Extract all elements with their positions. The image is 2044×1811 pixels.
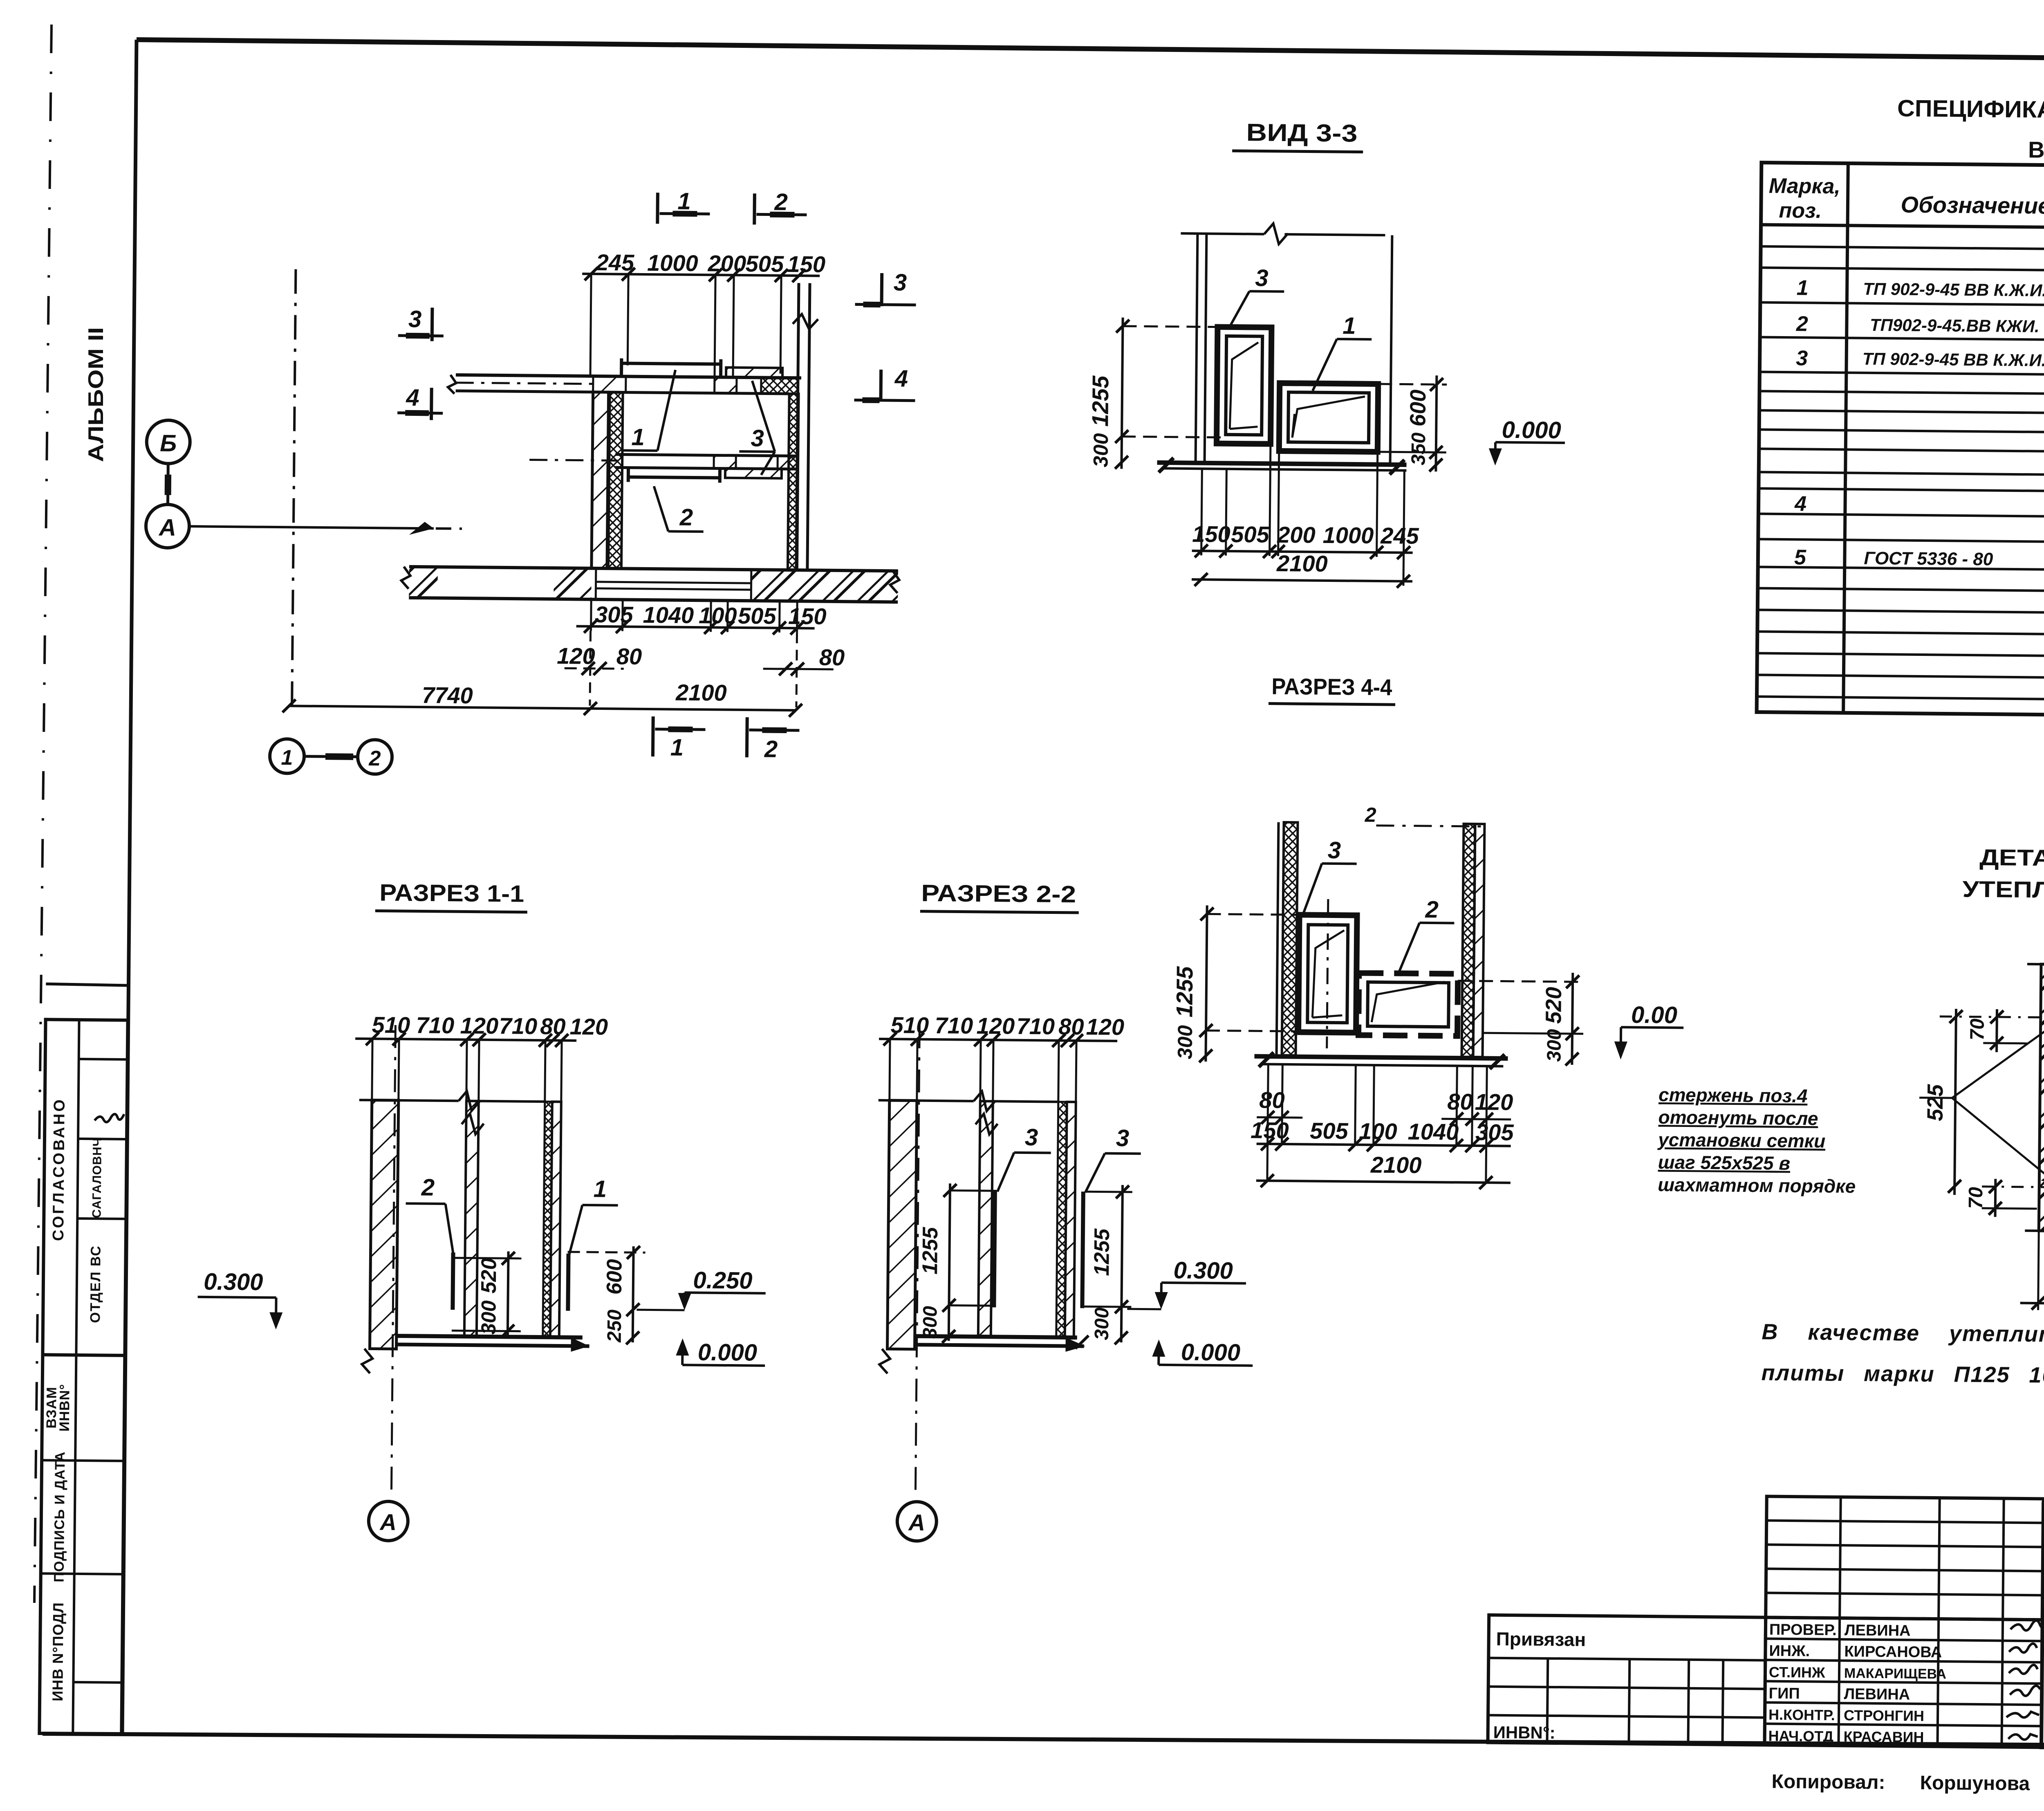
svg-text:ТП 902-9-45 ВВ К.Ж.И. РМ1: ТП 902-9-45 ВВ К.Ж.И. РМ1	[1863, 279, 2044, 301]
svg-text:1: 1	[677, 188, 691, 215]
wall break bottom	[2025, 1231, 2044, 1232]
svg-text:505: 505	[1310, 1118, 1349, 1144]
dim 600 250	[568, 1252, 645, 1253]
frame 2 edge bar	[453, 1252, 453, 1310]
svg-text:ГОСТ 5336 - 80: ГОСТ 5336 - 80	[1864, 548, 1993, 570]
svg-text:3: 3	[1796, 346, 1808, 370]
svg-text:шаг 525х525 в: шаг 525х525 в	[1658, 1151, 1790, 1174]
svg-text:1: 1	[1796, 276, 1808, 300]
svg-text:ВЕНТКАМЕРЫ: ВЕНТКАМЕРЫ	[2028, 137, 2044, 164]
svg-text:СТ.ИНЖ: СТ.ИНЖ	[1769, 1664, 1825, 1681]
svg-text:2: 2	[1365, 803, 1376, 826]
svg-text:ИНВ N°ПОДЛ: ИНВ N°ПОДЛ	[49, 1602, 67, 1701]
right dims 600 350	[1436, 375, 1437, 471]
axis 1 vertical line	[292, 269, 296, 706]
svg-text:ПОДПИСЬ И ДАТА: ПОДПИСЬ И ДАТА	[52, 1451, 68, 1582]
svg-text:ДЕТАЛЬ КРЕПЛЕНИЯ: ДЕТАЛЬ КРЕПЛЕНИЯ	[1979, 844, 2044, 873]
dim 70 bottom	[1994, 1179, 1997, 1217]
right wall pair	[543, 1102, 552, 1337]
svg-text:ОТДЕЛ ВС: ОТДЕЛ ВС	[87, 1245, 104, 1323]
middle wall	[464, 1101, 479, 1336]
svg-text:710: 710	[935, 1012, 973, 1039]
frame 3 edge bar right	[1082, 1192, 1083, 1308]
svg-text:80: 80	[1447, 1088, 1473, 1115]
svg-text:РАЗРЕЗ 2-2: РАЗРЕЗ 2-2	[921, 880, 1076, 908]
svg-text:0.000: 0.000	[698, 1339, 758, 1366]
axis circle 2	[358, 740, 392, 774]
cut mark 1 top	[656, 193, 659, 224]
svg-text:245: 245	[595, 249, 634, 276]
svg-text:505: 505	[1231, 521, 1270, 548]
svg-text:ИНВN°:: ИНВN°:	[1493, 1723, 1555, 1742]
svg-text:200: 200	[1277, 522, 1316, 548]
svg-text:2: 2	[421, 1174, 435, 1201]
svg-text:80: 80	[616, 643, 642, 669]
left wall of chamber	[592, 392, 609, 568]
svg-text:80: 80	[819, 644, 845, 671]
brick wall	[2039, 964, 2044, 1231]
svg-text:А: А	[379, 1509, 397, 1535]
column lines	[1843, 163, 1848, 713]
svg-text:КИРСАНОВА: КИРСАНОВА	[1844, 1643, 1942, 1661]
svg-text:245: 245	[1380, 523, 1419, 549]
top wall band	[456, 375, 801, 378]
svg-text:120: 120	[460, 1012, 498, 1039]
svg-text:1: 1	[594, 1176, 607, 1202]
svg-text:0.300: 0.300	[1173, 1257, 1233, 1284]
svg-text:СПЕЦИФИКАЦИЯ К СХЕМЕ РАСПОЛО: СПЕЦИФИКАЦИЯ К СХЕМЕ РАСПОЛОЖЕНИЯ	[1897, 95, 2044, 126]
svg-text:150: 150	[1251, 1117, 1289, 1143]
binding edge dashed line	[34, 25, 52, 1603]
right wall of chamber	[788, 394, 799, 570]
svg-text:300: 300	[1173, 1025, 1197, 1059]
svg-text:Марка,: Марка,	[1769, 174, 1840, 199]
left dim 1255 300	[950, 1189, 997, 1192]
svg-text:2: 2	[774, 189, 788, 215]
frame 1 window	[1279, 383, 1378, 452]
svg-text:отогнуть после: отогнуть после	[1658, 1106, 1818, 1129]
svg-text:520: 520	[477, 1258, 501, 1293]
stamp cell line	[77, 1219, 126, 1219]
left dims 1255 300	[1121, 318, 1123, 469]
svg-text:ТП902-9-45.ВВ КЖИ. РМ2: ТП902-9-45.ВВ КЖИ. РМ2	[1870, 315, 2044, 336]
right dim 1255 300	[1085, 1192, 1132, 1192]
svg-text:120: 120	[976, 1013, 1015, 1039]
svg-text:САГАЛОВНЧ: САГАЛОВНЧ	[90, 1137, 104, 1218]
svg-text:120: 120	[1086, 1014, 1124, 1040]
svg-text:70: 70	[1965, 1187, 1987, 1209]
svg-text:300: 300	[1091, 1307, 1113, 1340]
leaders from left note	[1919, 1097, 1952, 1099]
axis dash line	[915, 1026, 919, 1494]
dim 525	[1954, 1009, 1956, 1195]
right dims 520 300	[1572, 973, 1573, 1065]
svg-text:4: 4	[406, 384, 419, 411]
svg-text:шахматном порядке: шахматном порядке	[1658, 1174, 1856, 1197]
floor slab	[396, 1336, 583, 1337]
top dim line	[582, 274, 820, 276]
svg-text:2: 2	[1796, 312, 1809, 336]
svg-text:ИНВN°: ИНВN°	[57, 1384, 73, 1432]
svg-text:ЛЕВИНА: ЛЕВИНА	[1845, 1622, 1911, 1639]
bottom dim line	[576, 626, 815, 628]
floor line	[1255, 1056, 1508, 1058]
axis dash line	[391, 1025, 395, 1494]
svg-text:300: 300	[1543, 1029, 1565, 1062]
svg-text:710: 710	[499, 1013, 537, 1039]
table outer	[1757, 163, 2044, 719]
svg-text:3: 3	[751, 425, 764, 451]
ceiling line with break	[1181, 233, 1264, 234]
svg-text:2100: 2100	[1370, 1152, 1422, 1178]
axis circle А	[146, 504, 190, 548]
А axis circle	[897, 1501, 937, 1541]
sheet border left	[122, 40, 137, 1734]
frame 2 window	[1358, 973, 1458, 1036]
svg-text:Обозначение: Обозначение	[1901, 192, 2044, 219]
svg-text:1255: 1255	[1090, 1228, 1114, 1276]
svg-text:305: 305	[1475, 1119, 1514, 1145]
svg-text:4: 4	[894, 365, 908, 392]
svg-text:7740: 7740	[422, 682, 473, 708]
signatures	[2010, 1620, 2044, 1631]
axis dash through top band	[456, 383, 594, 384]
svg-text:3: 3	[894, 269, 907, 296]
stamp divider vertical	[73, 1020, 79, 1734]
svg-text:1: 1	[670, 734, 684, 761]
svg-text:525: 525	[1923, 1084, 1948, 1122]
svg-text:А: А	[158, 514, 176, 541]
frame 3 window	[1217, 327, 1271, 444]
right wall pair	[1056, 1102, 1067, 1337]
left wall edge lines	[1196, 233, 1198, 461]
ceiling line with break	[879, 1100, 974, 1101]
extension lines	[372, 1039, 372, 1100]
svg-text:710: 710	[1016, 1013, 1055, 1039]
svg-text:1040: 1040	[1407, 1119, 1459, 1145]
header bottom	[1761, 225, 2044, 232]
frame 3 edge bar left	[994, 1191, 995, 1307]
svg-text:Копировал:: Копировал:	[1771, 1771, 1885, 1793]
svg-text:1: 1	[1342, 312, 1356, 339]
svg-text:505: 505	[738, 603, 777, 629]
svg-text:поз.: поз.	[1779, 199, 1822, 223]
link bar between 1 and 2	[306, 756, 357, 757]
svg-text:600: 600	[603, 1259, 627, 1295]
stamp top tick	[46, 984, 128, 985]
svg-text:200: 200	[707, 250, 746, 276]
cut mark 1 bottom	[651, 716, 655, 756]
upper mini grid	[1766, 1497, 2044, 1620]
svg-text:520: 520	[1541, 987, 1566, 1024]
stamp cell line	[41, 1573, 123, 1574]
wall break top	[2027, 964, 2044, 965]
svg-text:0.300: 0.300	[204, 1268, 263, 1295]
svg-text:2: 2	[679, 504, 693, 531]
bottom dim chain	[1267, 1064, 1268, 1181]
extension lines	[890, 1039, 890, 1100]
svg-text:0.000: 0.000	[1502, 417, 1561, 444]
frame 3 window	[1298, 915, 1357, 1032]
svg-text:Коршунова: Коршунова	[1920, 1772, 2030, 1795]
svg-text:2100: 2100	[675, 680, 727, 706]
axis А line	[189, 526, 434, 528]
dim 520 300	[452, 1258, 521, 1258]
left wall hatched	[370, 1100, 399, 1349]
svg-text:4: 4	[1794, 492, 1807, 516]
svg-text:ЛЕВИНА: ЛЕВИНА	[1844, 1685, 1910, 1703]
svg-text:150: 150	[788, 603, 827, 629]
main outer of title block right	[2041, 1504, 2044, 1752]
left extension box	[1488, 1615, 1766, 1745]
axis link	[166, 464, 170, 505]
svg-text:Б: Б	[160, 430, 177, 457]
svg-text:3: 3	[1116, 1125, 1130, 1151]
left wall hatched	[888, 1100, 917, 1349]
svg-text:1255: 1255	[1171, 966, 1197, 1017]
axis dash through partition	[529, 460, 617, 460]
stamp cell line	[42, 1460, 124, 1461]
svg-text:ВИД 3-3: ВИД 3-3	[1246, 119, 1358, 147]
svg-text:ГИП: ГИП	[1768, 1685, 1800, 1703]
ext dashes to 2100 line	[590, 631, 591, 706]
svg-text:1000: 1000	[647, 250, 698, 276]
svg-text:3: 3	[1025, 1124, 1038, 1151]
extension lines down from top dims	[590, 274, 591, 376]
А axis circle	[368, 1501, 408, 1541]
svg-text:250: 250	[604, 1309, 626, 1343]
svg-text:МАКАРИЩЕВА: МАКАРИЩЕВА	[1844, 1665, 1946, 1682]
svg-text:150: 150	[787, 251, 825, 277]
svg-text:300: 300	[1089, 433, 1112, 467]
axis circle 1	[270, 739, 305, 774]
svg-text:2100: 2100	[1276, 550, 1328, 577]
cut mark 2 bottom	[745, 717, 749, 757]
svg-text:ПРОВЕР.: ПРОВЕР.	[1769, 1621, 1837, 1639]
stamp cell line	[73, 1682, 122, 1683]
project name 3 lines	[2042, 1627, 2044, 1632]
svg-text:3: 3	[408, 306, 422, 332]
floor slab	[915, 1336, 1077, 1337]
svg-text:120: 120	[569, 1014, 608, 1040]
axis circle Б	[146, 420, 190, 464]
svg-text:РАЗРЕЗ 4-4: РАЗРЕЗ 4-4	[1271, 673, 1392, 700]
svg-text:600: 600	[1405, 390, 1430, 427]
frame РМ2 in plan (bracket below partition)	[628, 477, 720, 478]
svg-text:2: 2	[368, 747, 381, 770]
svg-text:80: 80	[540, 1013, 566, 1039]
floor slab band (axis А wall)	[409, 567, 898, 571]
svg-text:0.250: 0.250	[693, 1267, 753, 1294]
hatch in top band	[593, 376, 626, 393]
svg-text:1040: 1040	[643, 602, 694, 628]
right wall	[1462, 824, 1475, 1057]
svg-text:АЛЬБОМ II: АЛЬБОМ II	[84, 327, 108, 462]
svg-text:Н.КОНТР.: Н.КОНТР.	[1768, 1706, 1835, 1723]
frame РМ3 strip top right	[726, 368, 782, 378]
svg-text:1: 1	[281, 746, 293, 770]
svg-text:505: 505	[745, 251, 784, 277]
right wall edge	[1390, 235, 1392, 463]
axis 2 dash line top	[1376, 826, 1489, 826]
svg-text:0.000: 0.000	[1181, 1339, 1241, 1366]
svg-text:120: 120	[1475, 1089, 1513, 1115]
svg-text:Привязан: Привязан	[1496, 1628, 1586, 1650]
svg-text:А: А	[908, 1509, 925, 1535]
pit lines under chamber	[596, 582, 751, 583]
stamp heavy divider	[43, 1355, 125, 1355]
bottom dims 120 80	[2038, 1231, 2039, 1310]
dim 70 top	[1995, 1009, 1998, 1052]
ceiling line with break	[359, 1100, 459, 1101]
svg-text:ИНЖ.: ИНЖ.	[1769, 1643, 1810, 1660]
svg-text:1000: 1000	[1322, 522, 1374, 548]
stamp cell line	[78, 1139, 127, 1139]
left wall	[1277, 822, 1279, 1055]
svg-text:1: 1	[631, 424, 645, 451]
left dims 1255 300	[1206, 905, 1207, 1061]
svg-text:3: 3	[1328, 837, 1341, 864]
bottom dim chain	[1201, 469, 1202, 555]
exterior wall above (axis 2 wall)	[796, 283, 799, 570]
svg-text:РАЗРЕЗ 1-1: РАЗРЕЗ 1-1	[379, 880, 524, 907]
signature squiggle	[94, 1114, 124, 1122]
floor line	[1157, 462, 1407, 465]
svg-text:УТЕПЛИТЕЛЯ К СТЕНЕ: УТЕПЛИТЕЛЯ К СТЕНЕ	[1962, 876, 2044, 904]
stamp outer box	[39, 1019, 128, 1734]
bottom dim row texts 305 1040 100 505 150	[590, 599, 592, 631]
svg-text:305: 305	[595, 601, 634, 628]
svg-text:70: 70	[1966, 1018, 1988, 1040]
bottom sheet border	[43, 1734, 2044, 1748]
svg-text:0.00: 0.00	[1631, 1001, 1677, 1028]
svg-text:710: 710	[416, 1012, 454, 1038]
svg-text:80: 80	[1259, 1087, 1285, 1113]
staff columns	[1766, 1617, 2042, 1620]
doc number row	[2043, 1583, 2044, 1587]
frame РМ3 strip bottom right	[725, 469, 782, 478]
svg-text:300: 300	[919, 1306, 941, 1339]
svg-text:150: 150	[1192, 521, 1230, 547]
svg-text:СОГЛАСОВАНО: СОГЛАСОВАНО	[50, 1097, 68, 1241]
svg-text:1255: 1255	[1087, 375, 1113, 427]
svg-text:350: 350	[1408, 432, 1430, 465]
svg-text:1255: 1255	[918, 1227, 942, 1275]
svg-text:установки сетки: установки сетки	[1657, 1129, 1825, 1152]
sheet border top	[137, 40, 2044, 63]
svg-text:300: 300	[477, 1300, 500, 1335]
svg-text:2: 2	[1425, 896, 1439, 923]
cut mark 2 top	[753, 193, 756, 224]
svg-text:СТРОНГИН: СТРОНГИН	[1844, 1707, 1924, 1724]
stamp cell line	[79, 1059, 128, 1059]
frame РМ1 in plan (bracket above band)	[621, 363, 721, 364]
row lines	[1761, 247, 2044, 254]
svg-text:5: 5	[1794, 545, 1807, 569]
svg-text:ТП 902-9-45 ВВ К.Ж.И. РМ3: ТП 902-9-45 ВВ К.Ж.И. РМ3	[1862, 349, 2044, 370]
frame 1 edge bar	[568, 1254, 568, 1311]
svg-text:стержень поз.4: стержень поз.4	[1659, 1084, 1808, 1106]
svg-text:2: 2	[764, 736, 778, 763]
svg-text:3: 3	[1255, 265, 1269, 291]
middle wall	[978, 1101, 993, 1337]
middle partition band	[615, 454, 797, 456]
dim 7740 line	[289, 706, 796, 710]
